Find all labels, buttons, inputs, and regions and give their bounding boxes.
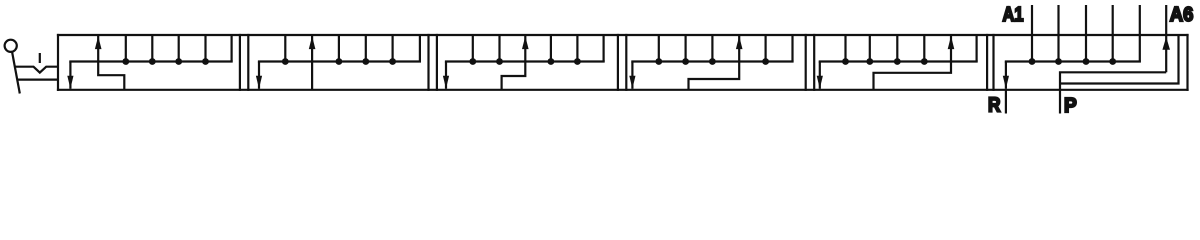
lever link upper with detent notch <box>15 67 58 73</box>
section 3/4 boundary wall left <box>617 34 619 91</box>
section 4 pressure up-arrow with jog to P gallery <box>689 36 743 90</box>
section 5/6 boundary wall left <box>986 34 988 91</box>
detent tick <box>39 53 41 63</box>
section 1 gallery end riser <box>231 35 233 62</box>
section 3 junction dot 4 with riser <box>574 35 581 65</box>
section 6 gallery wire (dots line) <box>1005 60 1141 62</box>
lever knob (circle) <box>5 40 17 52</box>
section 1 junction dot 1 with riser <box>122 35 129 65</box>
section 5 pressure up-arrow with jog to P gallery <box>874 36 955 90</box>
section 2 junction dot 2 with riser <box>336 35 343 65</box>
port A1 line with junction dot <box>1029 5 1036 65</box>
section 5 gallery end riser <box>975 35 977 62</box>
port A3 line with junction dot <box>1083 5 1090 65</box>
section 2/3 boundary wall left <box>427 34 429 91</box>
section 3 junction dot 2 with riser <box>496 35 503 65</box>
section 1/2 boundary wall right <box>247 34 249 91</box>
section 4 junction dot 3 with riser <box>709 35 716 65</box>
section 1/2 boundary wall left <box>239 34 241 91</box>
port A2 line with junction dot <box>1055 5 1062 65</box>
wire P to A6 (H1) <box>1060 72 1166 113</box>
section 1 junction dot 3 with riser <box>175 35 182 65</box>
section 4 gallery wire (dots line) <box>631 60 793 62</box>
section 4/5 boundary wall left <box>805 34 807 91</box>
section 2 tank down-arrow (spool drain) <box>256 62 262 89</box>
section 2 gallery end riser <box>419 35 421 62</box>
wire H2 neutral passage <box>1060 35 1179 84</box>
section 3 tank down-arrow (spool drain) <box>443 62 449 89</box>
section 4 tank down-arrow (spool drain) <box>629 62 635 89</box>
section 3 junction dot 3 with riser <box>548 35 555 65</box>
section 4/5 boundary wall right <box>813 34 815 91</box>
section 4 junction dot 4 with riser <box>762 35 769 65</box>
lever link lower <box>18 78 58 80</box>
node R label <box>988 94 1001 117</box>
lever arm <box>12 52 20 94</box>
section 2 junction dot 4 with riser <box>389 35 396 65</box>
section 1 gallery wire (dots line) <box>69 60 232 62</box>
section 4 gallery end riser <box>791 35 793 62</box>
section 1 tank down-arrow (spool drain) <box>67 62 73 89</box>
section 5 tank down-arrow (spool drain) <box>817 62 823 89</box>
section 3/4 boundary wall right <box>625 34 627 91</box>
section 5 junction dot 3 with riser <box>894 35 901 65</box>
svg-text:A6: A6 <box>1170 3 1194 26</box>
section 5/6 boundary wall right <box>992 34 994 91</box>
valve body right wall <box>1186 34 1188 91</box>
section 5 junction dot 2 with riser <box>866 35 873 65</box>
node P label <box>1064 94 1077 117</box>
valve body top edge <box>57 34 1189 36</box>
svg-text:A1: A1 <box>1003 3 1024 26</box>
section 1 junction dot 4 with riser <box>202 35 209 65</box>
section 2/3 boundary wall right <box>436 34 438 91</box>
section 5 junction dot 4 with riser <box>921 35 928 65</box>
section 5 gallery wire (dots line) <box>819 60 978 62</box>
section 2 gallery wire (dots line) <box>258 60 421 62</box>
section 1 junction dot 2 with riser <box>149 35 156 65</box>
section 3 pressure up-arrow with jog to P gallery <box>502 36 529 90</box>
section 2 junction dot 1 with riser <box>282 35 289 65</box>
svg-text:P: P <box>1064 94 1077 117</box>
node A6 label <box>1170 3 1194 26</box>
section 3 junction dot 1 with riser <box>469 35 476 65</box>
node A1 label <box>1003 3 1024 26</box>
svg-text:R: R <box>988 94 1001 117</box>
section 3 gallery wire (dots line) <box>445 60 605 62</box>
section 2 junction dot 3 with riser <box>362 35 369 65</box>
section 4 junction dot 1 with riser <box>655 35 662 65</box>
port A4 line with junction dot <box>1109 5 1116 65</box>
section 2 pressure up-arrow <box>309 36 316 90</box>
section 6 tank down-arrow to R port <box>1003 62 1009 114</box>
port A6 up-arrow <box>1162 5 1170 72</box>
section 1 pressure up-arrow with jog to P gallery <box>95 36 124 90</box>
section 5 junction dot 1 with riser <box>842 35 849 65</box>
valve body left wall <box>57 34 59 91</box>
section 3 gallery end riser <box>602 35 604 62</box>
valve body bottom edge (tank gallery) <box>57 89 1189 91</box>
port A5 line / gallery end riser <box>1139 5 1141 62</box>
section 4 junction dot 2 with riser <box>682 35 689 65</box>
